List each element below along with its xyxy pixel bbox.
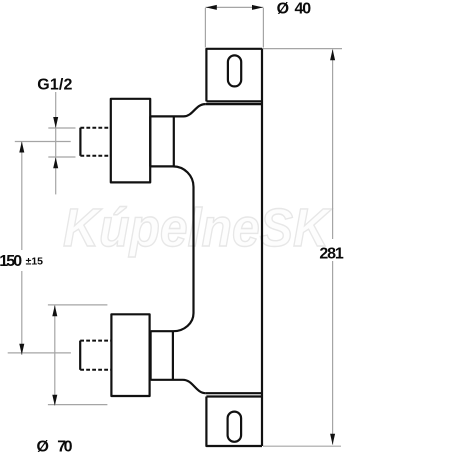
svg-text:281: 281 [319,245,343,262]
svg-text:70: 70 [57,439,72,454]
svg-text:150: 150 [0,253,22,270]
svg-text:Ø: Ø [277,1,289,18]
svg-text:KúpelneSK: KúpelneSK [63,198,333,258]
svg-text:40: 40 [295,1,312,18]
svg-text:±15: ±15 [26,256,44,268]
svg-text:G1/2: G1/2 [37,77,72,94]
svg-text:Ø: Ø [37,439,49,454]
